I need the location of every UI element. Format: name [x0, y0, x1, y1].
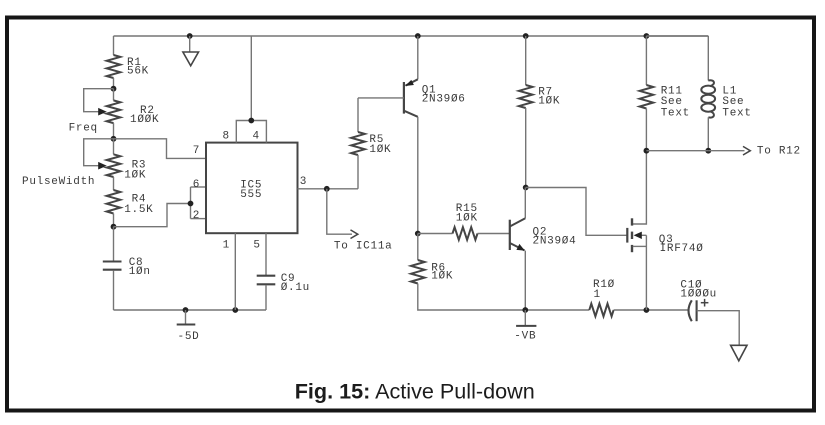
node bracket junction — [188, 201, 194, 207]
resistor R15 — [453, 227, 478, 240]
wire L1 bottom lead — [707, 117, 709, 150]
pins 8-4 bracket — [236, 121, 266, 143]
resistor R11 — [640, 85, 654, 109]
svg-text:1.5K: 1.5K — [124, 204, 153, 216]
wire rail to pins 8-4 — [250, 36, 252, 121]
wire R3-R4 lead — [113, 177, 115, 190]
wire R3 top lead — [113, 139, 115, 155]
svg-text:1ØØK: 1ØØK — [130, 114, 159, 126]
wire to IC11a — [327, 189, 352, 234]
wire R15 right lead — [478, 233, 510, 235]
svg-text:To R12: To R12 — [757, 146, 801, 158]
node R2-R3 junction — [111, 136, 117, 142]
svg-text:1ØK: 1ØK — [538, 95, 560, 107]
svg-text:See: See — [661, 96, 683, 108]
wire C8 top lead — [113, 227, 115, 261]
op-amp / timer IC5 555 box — [206, 143, 298, 234]
wire R4 bottom lead — [113, 214, 115, 227]
555 pin 6 stub — [191, 186, 207, 188]
resistor R10 — [589, 304, 613, 317]
svg-text:2N39Ø6: 2N39Ø6 — [422, 93, 466, 105]
ground -5D — [185, 310, 187, 324]
wire L1 top lead — [707, 36, 709, 81]
wire R1 top lead — [113, 36, 115, 55]
wire R5 bottom lead — [357, 155, 359, 189]
resistor R4 — [107, 190, 121, 214]
svg-text:555: 555 — [240, 189, 262, 201]
resistor R6 — [411, 260, 425, 284]
wire 555 pin 1 to rail — [234, 233, 236, 310]
svg-text:See: See — [722, 96, 744, 108]
node -5D tap — [183, 307, 189, 313]
capacitor C8 — [103, 260, 122, 262]
node bracket 8-4 — [248, 118, 254, 124]
svg-text:Ø.1u: Ø.1u — [281, 282, 310, 294]
svg-text:8: 8 — [223, 131, 230, 143]
svg-text:Text: Text — [722, 108, 751, 120]
svg-text:6: 6 — [193, 179, 200, 191]
wire R6 to bottom rail — [418, 284, 590, 311]
wire top supply rail — [114, 35, 709, 37]
potentiometer R2 — [107, 100, 121, 123]
svg-text:Fig. 15: Active Pull-down: Fig. 15: Active Pull-down — [295, 379, 535, 404]
555 pin 2 stub — [191, 218, 207, 220]
svg-text:3: 3 — [300, 176, 307, 188]
svg-text:2N39Ø4: 2N39Ø4 — [533, 236, 577, 248]
potentiometer R3 — [107, 154, 121, 177]
node R4-C8 junction — [111, 224, 117, 230]
supply arrow symbol top — [189, 36, 191, 52]
node R1-R2 junction — [111, 86, 117, 92]
wire to R12 — [708, 150, 744, 152]
R3 wiper wire — [84, 139, 114, 166]
arrow To R12 — [743, 146, 750, 155]
node pin1 tap — [232, 307, 238, 313]
node pin3 junction — [324, 186, 330, 192]
node Q1 collector junction — [415, 231, 421, 237]
svg-text:1Øn: 1Øn — [129, 266, 151, 278]
transistor Q2 2N3904 — [509, 220, 511, 250]
svg-text:IRF74Ø: IRF74Ø — [660, 243, 704, 255]
svg-text:2: 2 — [193, 210, 200, 222]
R2 wiper arrow — [98, 108, 107, 116]
wire 555 pin 3 — [298, 188, 359, 190]
capacitor C10 polarized — [689, 300, 692, 321]
node Q1 emitter tap — [415, 33, 421, 39]
wire node to 555 pin 7 — [114, 139, 207, 159]
svg-text:1ØK: 1ØK — [431, 270, 453, 282]
resistor R1 — [107, 55, 121, 78]
ground -VB — [524, 310, 526, 325]
svg-text:1ØK: 1ØK — [369, 144, 391, 156]
svg-text:5: 5 — [253, 240, 260, 252]
svg-text:To IC11a: To IC11a — [334, 241, 393, 253]
wire R6 top lead — [417, 234, 419, 261]
svg-text:1: 1 — [223, 240, 230, 252]
resistor R7 — [519, 85, 533, 108]
wire R11 top lead — [645, 36, 647, 85]
resistor R5 — [351, 132, 365, 155]
svg-text:1ØK: 1ØK — [456, 212, 478, 224]
svg-text:Text: Text — [661, 108, 690, 120]
wire R11 to L1 bottom — [646, 150, 708, 152]
svg-text:56K: 56K — [127, 65, 149, 77]
node R11 tap — [644, 33, 650, 39]
svg-text:4: 4 — [253, 131, 260, 143]
wire R10 to C10 — [614, 309, 689, 311]
wire R5 top lead — [357, 98, 359, 132]
capacitor C9 — [257, 275, 276, 277]
wire R15 left lead — [418, 233, 453, 235]
arrow To IC11a — [351, 230, 358, 239]
svg-text:PulseWidth: PulseWidth — [22, 176, 95, 188]
node Q2 emitter -VB — [522, 307, 528, 313]
node R11-L1 junction — [644, 148, 650, 154]
wire 555 pin 5 lead — [265, 233, 267, 275]
R3 wiper arrow — [98, 162, 107, 170]
wire R1 bottom lead — [113, 78, 115, 89]
node L1 bottom junction — [705, 148, 711, 154]
node R7 tap — [523, 33, 529, 39]
node Q3 source — [644, 307, 650, 313]
svg-text:1ØØØu: 1ØØØu — [680, 289, 717, 301]
node supply arrow tap — [187, 33, 193, 39]
supply arrow symbol bottom — [731, 345, 747, 361]
wire R2 bottom lead — [113, 123, 115, 139]
R2 wiper wire — [84, 89, 114, 112]
wire to Q3 gate — [526, 188, 627, 236]
svg-text:-5D: -5D — [178, 331, 200, 343]
wire left ground rail — [114, 309, 267, 311]
svg-text:1ØK: 1ØK — [124, 170, 146, 182]
svg-text:Freq: Freq — [69, 122, 98, 134]
wire C10 to arrow — [697, 311, 740, 346]
wire C9 bottom lead — [265, 285, 267, 310]
wire R7 bottom lead — [525, 108, 527, 188]
svg-text:7: 7 — [193, 145, 200, 157]
node R7-Q2 collector — [523, 185, 529, 191]
wire R11 bottom lead — [645, 109, 647, 151]
inductor L1 — [708, 80, 714, 86]
pins 6-2 bracket — [190, 187, 192, 219]
svg-text:-VB: -VB — [514, 331, 536, 343]
transistor Q1 2N3906 — [417, 36, 419, 79]
wire node to 555 pins 6-2 — [114, 204, 191, 227]
wire rail to L1 — [646, 35, 708, 37]
transistor Q3 IRF740 — [633, 151, 647, 224]
wire R7 top lead — [525, 36, 527, 85]
wire R2 top lead — [113, 89, 115, 101]
svg-text:1: 1 — [594, 289, 601, 301]
wire C8 bottom lead — [113, 270, 115, 310]
